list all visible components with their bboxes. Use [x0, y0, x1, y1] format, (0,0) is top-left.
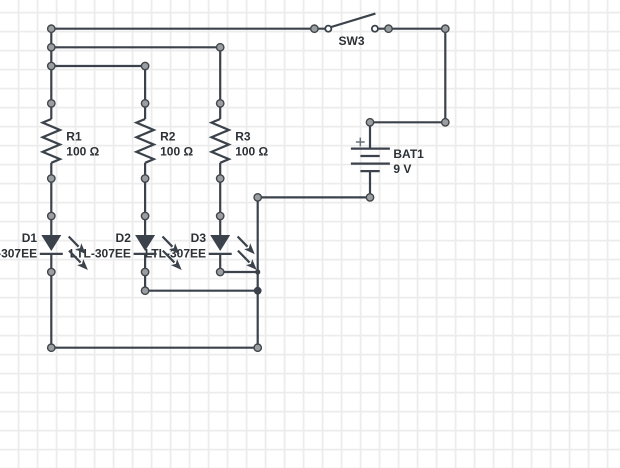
LED D3 cathode bar [209, 253, 232, 255]
LED D2 [134, 235, 182, 270]
wire collector vertical [257, 197, 259, 347]
node switch left [311, 25, 318, 32]
wire third rail [51, 65, 145, 67]
svg-text:D3: D3 [191, 231, 207, 245]
battery plus sign [356, 138, 365, 147]
battery plate short [360, 155, 379, 157]
LED D2 emission arrow 2 [163, 251, 175, 263]
node branch1 rail3 [48, 62, 55, 69]
wire top rail left segment [51, 28, 328, 30]
svg-text:100 Ω: 100 Ω [160, 145, 193, 159]
wire right vertical [444, 29, 446, 123]
node D3 top [217, 212, 224, 219]
svg-text:R1: R1 [66, 129, 82, 143]
wire D3 to collector [220, 271, 258, 273]
LED D2 cathode bar [134, 253, 157, 255]
node R3 bottom [217, 175, 224, 182]
wire branch1 upper [50, 29, 52, 119]
LED D3 emission arrow 1 [238, 237, 248, 247]
junction collector lower [254, 287, 262, 295]
node D2 top [141, 212, 148, 219]
svg-text:R2: R2 [160, 129, 176, 143]
LED D1 cathode bar [40, 253, 63, 255]
wire second rail [51, 46, 220, 48]
wire battery top horizontal [370, 121, 445, 123]
node D1 top [48, 212, 55, 219]
wire branch2 middle [144, 163, 146, 236]
LED D2 anode triangle [135, 235, 155, 251]
wire battery top lead [369, 122, 371, 148]
resistor R1 [43, 119, 100, 163]
wire branch3 middle [219, 163, 221, 236]
node bottom rail right [254, 344, 261, 351]
wire branch1 middle [50, 163, 52, 236]
node switch right [385, 25, 392, 32]
wire D2 to collector [145, 290, 258, 292]
node branch1 rail2 [48, 44, 55, 51]
junction collector upper [255, 269, 260, 274]
LED D3 anode triangle [210, 235, 230, 251]
battery plate long [351, 163, 390, 165]
switch SW3 [325, 14, 378, 48]
LED D1 anode triangle [41, 235, 61, 251]
wire branch2 lower [144, 254, 146, 291]
wire branch3 lower [219, 254, 221, 272]
svg-text:LTL-307EE: LTL-307EE [0, 246, 37, 260]
node top right corner [442, 25, 449, 32]
LED D3 [209, 235, 257, 270]
resistor R2 [136, 119, 193, 163]
node R1 top [48, 100, 55, 107]
node D2 stub [141, 287, 148, 294]
node branch3 top [217, 44, 224, 51]
node D2 bottom [141, 268, 148, 275]
resistor R3 [212, 119, 269, 163]
battery plate long top [351, 148, 390, 150]
wire branch2 upper [144, 66, 146, 119]
svg-text:R3: R3 [235, 129, 251, 143]
node battery top [366, 119, 373, 126]
resistor R1 zigzag body [43, 119, 60, 163]
wire battery bottom lead [369, 171, 371, 197]
svg-text:BAT1: BAT1 [393, 147, 424, 161]
svg-text:100 Ω: 100 Ω [66, 145, 99, 159]
wire branch1 lower [50, 254, 52, 348]
svg-text:D1: D1 [22, 231, 38, 245]
LED D1 emission arrow 1 [69, 237, 79, 247]
svg-text:9 V: 9 V [393, 162, 411, 176]
node collector top [254, 194, 261, 201]
LED D1 emission arrow 2 [69, 251, 81, 263]
node bottom rail left [48, 344, 55, 351]
wire bottom rail [51, 347, 257, 349]
LED D2 emission arrow 1 [163, 237, 173, 247]
node R1 bottom [48, 175, 55, 182]
svg-text:D2: D2 [116, 231, 132, 245]
node R2 bottom [141, 175, 148, 182]
battery BAT1 [351, 138, 424, 176]
switch throw circle [372, 26, 378, 32]
node battery bottom [366, 194, 373, 201]
node branch2 top [141, 62, 148, 69]
wire branch3 upper [219, 47, 221, 119]
node D3 bottom [217, 268, 224, 275]
switch lever [331, 14, 375, 27]
node R3 top [217, 100, 224, 107]
wire top rail right segment [375, 28, 445, 30]
node branch1 top [48, 25, 55, 32]
node battery rail right [442, 119, 449, 126]
resistor R2 zigzag body [136, 119, 153, 163]
battery plate short bottom [360, 170, 379, 172]
node D1 bottom [48, 268, 55, 275]
resistor R3 zigzag body [212, 119, 229, 163]
wire battery bottom to collector [258, 196, 370, 198]
svg-text:100 Ω: 100 Ω [235, 145, 268, 159]
node R2 top [141, 100, 148, 107]
LED D3 emission arrow 2 [238, 251, 250, 263]
svg-text:SW3: SW3 [338, 34, 364, 48]
switch pole circle [325, 26, 331, 32]
LED D1 [40, 235, 88, 270]
